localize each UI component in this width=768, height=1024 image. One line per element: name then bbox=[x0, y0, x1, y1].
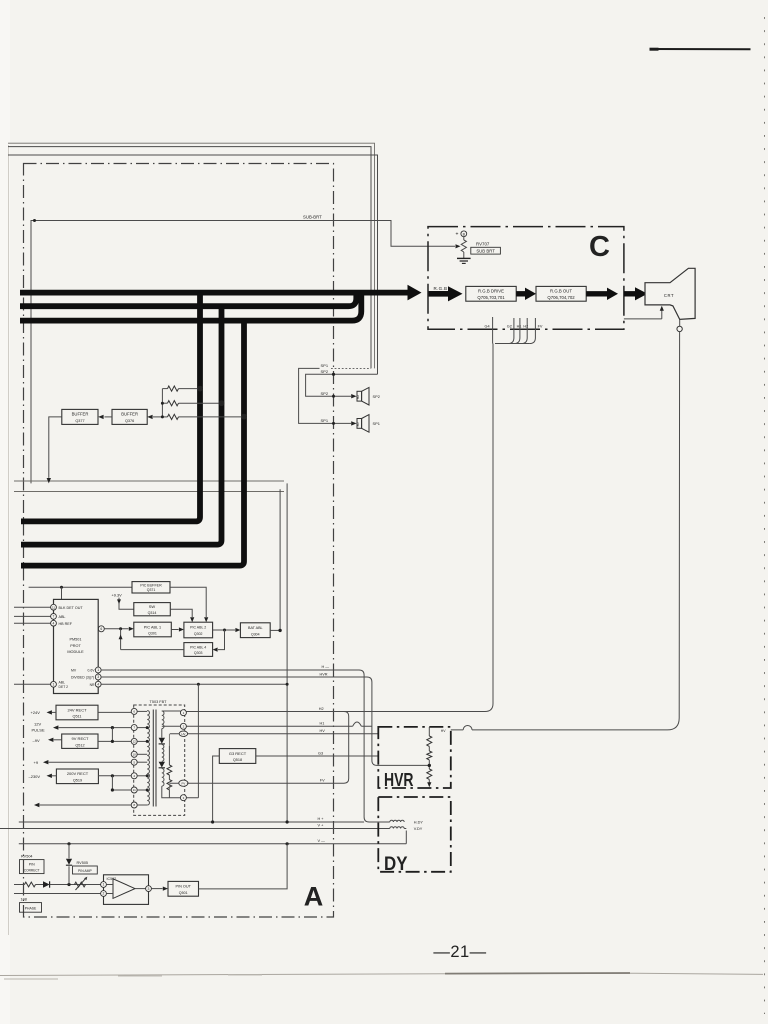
svg-text:PIN OUT: PIN OUT bbox=[175, 885, 191, 889]
module HVR box bbox=[378, 727, 451, 788]
svg-text:SUB BRT: SUB BRT bbox=[476, 249, 495, 254]
wire V.DY return bbox=[384, 822, 406, 829]
rectifier G3 RECT Q518 bbox=[219, 749, 256, 764]
svg-text:H1: H1 bbox=[320, 722, 325, 726]
svg-text:Q314: Q314 bbox=[148, 611, 157, 615]
wire resistor bus bbox=[161, 389, 163, 417]
svg-text:+9.3V: +9.3V bbox=[112, 592, 123, 597]
CRT tube bbox=[645, 268, 695, 319]
wire V+ bbox=[0, 828, 384, 830]
svg-text:H —: H — bbox=[322, 665, 330, 669]
pin 7 ABL bbox=[14, 615, 51, 617]
wire hop on H1 bbox=[353, 722, 362, 726]
svg-text:+9: +9 bbox=[34, 760, 39, 765]
svg-text:H +: H + bbox=[318, 817, 325, 821]
svg-text:1: 1 bbox=[97, 668, 99, 672]
wire pin2 left bbox=[14, 893, 101, 895]
svg-text:200V RECT: 200V RECT bbox=[67, 771, 89, 776]
svg-text:PIC ABL 1: PIC ABL 1 bbox=[144, 625, 161, 629]
module DY box bbox=[378, 797, 451, 872]
svg-text:11: 11 bbox=[133, 788, 136, 792]
svg-text:NR: NR bbox=[90, 683, 95, 687]
wire to op-amp bbox=[50, 884, 101, 886]
wire G3 RECT input drop bbox=[213, 756, 220, 822]
svg-text:–230V: –230V bbox=[29, 774, 41, 779]
svg-text:108: 108 bbox=[21, 897, 27, 901]
resistor row 3 bbox=[153, 416, 168, 418]
pin 1 ABL DET2 bbox=[14, 683, 51, 685]
svg-text:V +: V + bbox=[318, 824, 325, 828]
switch SW Q314 bbox=[134, 603, 171, 616]
transformer core bbox=[152, 710, 154, 807]
svg-text:9V RECT: 9V RECT bbox=[72, 736, 89, 741]
wire ABL2 down to ABL4 bbox=[218, 630, 225, 650]
resistor row 2 bbox=[162, 402, 167, 404]
svg-text:PHASE: PHASE bbox=[25, 906, 37, 910]
svg-text:PIN: PIN bbox=[29, 862, 35, 866]
wire ABL4 feedback bbox=[121, 629, 184, 650]
wire node6 to PIC ABL1 bbox=[104, 628, 128, 630]
wire lower box line 2 bbox=[14, 491, 284, 493]
svg-text:Q304: Q304 bbox=[251, 632, 260, 636]
wire ABL2 to BAT ABL bbox=[213, 629, 236, 631]
svg-text:H2: H2 bbox=[319, 707, 324, 711]
svg-text:PROT: PROT bbox=[70, 644, 81, 648]
pin 11 BLK DET OUT bbox=[14, 606, 51, 608]
op-amp triangle bbox=[113, 879, 135, 899]
bus arrow into C bbox=[408, 285, 422, 301]
svg-text:Q705,703,701: Q705,703,701 bbox=[477, 295, 505, 300]
wire pin8 out bbox=[40, 804, 132, 806]
wire buffer2 to buffer1 bbox=[105, 416, 113, 418]
wire top line 2 bbox=[8, 155, 378, 374]
svg-text:V.DY: V.DY bbox=[414, 827, 423, 831]
pin 4 HB REF bbox=[14, 622, 51, 624]
amplifier R.G.B DRIVE Q705,703,701 bbox=[466, 286, 516, 301]
wire top line 1 bbox=[8, 147, 371, 369]
svg-text:Q706,704,702: Q706,704,702 bbox=[547, 295, 575, 300]
bus arrow border to DRIVE bbox=[429, 291, 450, 297]
svg-text:MODULE: MODULE bbox=[67, 650, 84, 654]
svg-text:FV: FV bbox=[538, 325, 543, 329]
junction bus drop 2 bbox=[219, 400, 225, 406]
section boundary A box bbox=[24, 164, 334, 918]
svg-text:H.DY: H.DY bbox=[414, 821, 424, 825]
wire HVR feed bbox=[101, 677, 429, 765]
svg-text:PIC ABL 2: PIC ABL 2 bbox=[190, 626, 206, 630]
wire G1 to CRT bbox=[624, 310, 662, 319]
svg-text:G4: G4 bbox=[485, 325, 490, 329]
diode D504 bbox=[43, 881, 50, 887]
module PM501 bbox=[54, 599, 99, 693]
svg-text:H1: H1 bbox=[517, 325, 522, 329]
junction SP2/border top bbox=[332, 373, 335, 376]
wire secondary taps bbox=[162, 711, 181, 783]
wire ABL1 to ABL2 bbox=[171, 629, 178, 631]
wire video bus G bbox=[20, 295, 356, 307]
op-amp pin2 bbox=[101, 891, 107, 897]
transformer pin 8 bbox=[131, 802, 137, 808]
svg-text:Q303: Q303 bbox=[194, 651, 203, 655]
svg-text:R.G.B OUT: R.G.B OUT bbox=[550, 289, 572, 294]
wire H2 bbox=[186, 711, 485, 713]
svg-text:SP1: SP1 bbox=[321, 418, 329, 423]
svg-text:FV: FV bbox=[181, 781, 185, 785]
wire bus drop 3 bbox=[21, 321, 244, 566]
wire buffer1 output down bbox=[49, 417, 62, 478]
junction SP1/border bbox=[332, 422, 335, 425]
svg-text:DET 2: DET 2 bbox=[59, 685, 69, 689]
ground RV707 bbox=[457, 257, 471, 259]
svg-text:+: + bbox=[456, 232, 459, 238]
svg-text:SW: SW bbox=[149, 604, 156, 609]
resistor bleeder 2 bbox=[168, 775, 170, 780]
resistor divider HVR bbox=[428, 727, 430, 736]
svg-text:HV: HV bbox=[320, 729, 326, 733]
svg-text:12V: 12V bbox=[34, 721, 41, 726]
transformer pin 6 bbox=[131, 708, 137, 714]
svg-text:PIC BUFFER: PIC BUFFER bbox=[140, 583, 162, 587]
CRT anode terminal bbox=[679, 319, 681, 326]
wire SP1 route bbox=[299, 368, 351, 423]
wire CRT anode to HVR (HV) bbox=[472, 332, 680, 730]
rectifier 24V RECT Q511 bbox=[56, 705, 98, 720]
svg-text:G3 RECT: G3 RECT bbox=[229, 751, 247, 756]
svg-text:1: 1 bbox=[103, 883, 105, 887]
wire H+ bbox=[19, 821, 364, 823]
svg-text:MV: MV bbox=[71, 668, 77, 672]
wire video bus R (top) bbox=[20, 290, 409, 296]
faint page fold line bbox=[8, 145, 10, 935]
wire video bus B bbox=[20, 294, 361, 321]
label PHASE box bbox=[20, 903, 42, 913]
transformer pin 4 bbox=[131, 773, 137, 779]
svg-text:RV707: RV707 bbox=[476, 242, 490, 247]
amplifier R.G.B OUT Q706,704,702 bbox=[536, 286, 586, 301]
wire V- bbox=[19, 831, 407, 844]
svg-text:HVR: HVR bbox=[384, 769, 414, 790]
svg-text:SP2: SP2 bbox=[373, 394, 380, 399]
bus arrow into CRT bbox=[624, 291, 636, 296]
svg-text:Q302: Q302 bbox=[194, 632, 203, 636]
transformer pin HV bbox=[179, 731, 187, 736]
wire PIC BUFFER out to PIC ABL2 bbox=[170, 587, 206, 617]
wire top line 0 bbox=[8, 143, 375, 368]
svg-text:BUFFER: BUFFER bbox=[121, 412, 138, 417]
speaker SP1 bbox=[357, 419, 362, 429]
svg-text:—21—: —21— bbox=[433, 943, 486, 961]
section boundary C box bbox=[428, 227, 624, 330]
svg-text:10: 10 bbox=[133, 752, 137, 756]
wire H1 bbox=[186, 725, 372, 727]
svg-text:R.G.B: R.G.B bbox=[434, 286, 448, 291]
svg-text:12: 12 bbox=[133, 740, 137, 744]
label PIN AMP box bbox=[73, 866, 98, 874]
buffer Q377 bbox=[62, 409, 98, 424]
resistor row 1 bbox=[162, 388, 167, 390]
svg-text:RV505: RV505 bbox=[77, 861, 89, 865]
wire FV bbox=[187, 782, 344, 784]
svg-text:PIN AMP: PIN AMP bbox=[78, 869, 92, 873]
svg-text:7: 7 bbox=[53, 615, 55, 619]
label SUB BRT bbox=[471, 247, 501, 254]
svg-text:BLK DET OUT: BLK DET OUT bbox=[59, 606, 84, 610]
wire NR line bbox=[101, 683, 287, 685]
wire SW out to PIC ABL2 bbox=[170, 609, 192, 617]
rectifier 200V RECT Q519 bbox=[56, 769, 98, 784]
svg-text:ABL: ABL bbox=[59, 615, 66, 619]
label PIN CORRECT box bbox=[20, 860, 45, 874]
svg-text:PM501: PM501 bbox=[69, 637, 81, 641]
svg-text:A: A bbox=[304, 882, 324, 912]
wire tick merge line bbox=[495, 343, 530, 345]
svg-text:24V RECT: 24V RECT bbox=[67, 707, 87, 712]
wire 200V branch to pin11 bbox=[112, 776, 131, 790]
wire bus drop 2 bbox=[21, 306, 222, 544]
wire BAT ABL out bbox=[270, 629, 280, 631]
bus arrow out to border bbox=[586, 291, 608, 296]
svg-text:4: 4 bbox=[97, 682, 99, 686]
svg-text:FV: FV bbox=[320, 779, 325, 783]
svg-text:PULSE: PULSE bbox=[32, 728, 45, 733]
svg-text:3: 3 bbox=[148, 887, 150, 891]
svg-text:4: 4 bbox=[53, 621, 55, 625]
resistor input bbox=[14, 884, 25, 886]
transformer T503 dashed outline bbox=[134, 705, 185, 815]
svg-text:G3: G3 bbox=[318, 752, 323, 756]
svg-text:BAT ABL: BAT ABL bbox=[248, 626, 263, 630]
svg-text:SP1: SP1 bbox=[373, 421, 380, 426]
transformer pin 1 bbox=[180, 710, 186, 716]
svg-text:Q501: Q501 bbox=[179, 891, 188, 895]
svg-text:C: C bbox=[589, 231, 610, 263]
wire hop on HV line bbox=[451, 725, 472, 729]
wire H- to DY bbox=[101, 670, 384, 822]
transformer pin 12 bbox=[131, 738, 137, 744]
wire to PIN OUT bbox=[152, 888, 163, 890]
svg-text:CRT: CRT bbox=[664, 293, 674, 298]
svg-text:1: 1 bbox=[53, 683, 55, 687]
wire G3 to HVR bbox=[256, 755, 378, 757]
svg-text:Q519: Q519 bbox=[73, 778, 82, 782]
svg-text:R.G.B DRIVE: R.G.B DRIVE bbox=[478, 289, 504, 294]
wire junction drop bbox=[61, 587, 63, 599]
svg-text:+24V: +24V bbox=[31, 710, 41, 715]
potentiometer RV505 bbox=[75, 882, 86, 887]
coil H.DY bbox=[390, 820, 404, 822]
transformer pin 3 bbox=[180, 795, 186, 801]
wire bus drop 1 bbox=[21, 293, 200, 522]
svg-text:Q377: Q377 bbox=[75, 419, 84, 423]
svg-text:0.6V: 0.6V bbox=[88, 668, 96, 672]
svg-text:HVR: HVR bbox=[320, 672, 328, 676]
svg-text:BUFFER: BUFFER bbox=[72, 412, 89, 417]
svg-text:PIC ABL 4: PIC ABL 4 bbox=[190, 646, 206, 650]
transformer pin 5 bbox=[131, 759, 137, 765]
wire G4 drop to H2 line bbox=[485, 344, 493, 712]
op-amp IC502 bbox=[104, 875, 149, 905]
op-amp output bbox=[135, 888, 146, 890]
svg-text:DY: DY bbox=[384, 854, 408, 875]
wire 9V to pin12 bbox=[98, 728, 131, 742]
svg-text:3: 3 bbox=[97, 675, 99, 679]
diode D2 bbox=[159, 762, 165, 768]
transformer pin 7 bbox=[131, 725, 137, 731]
svg-text:DIVIDED (3)(7): DIVIDED (3)(7) bbox=[71, 675, 94, 679]
binding edge tick marks bbox=[764, 10, 768, 1014]
junction SP2/border bbox=[332, 395, 335, 398]
svg-text:SP2: SP2 bbox=[321, 369, 329, 374]
amplifier PIC ABL 1 Q301 bbox=[134, 622, 172, 637]
resistor bleeder 1 bbox=[168, 746, 170, 765]
diode D505 vertical bbox=[68, 866, 70, 884]
transformer pin 10 bbox=[131, 751, 137, 757]
diode D1 bbox=[159, 738, 165, 744]
bus arrow drive to out bbox=[516, 291, 526, 296]
transformer pin 11 bbox=[131, 787, 137, 793]
transformer pin FV bbox=[179, 780, 188, 786]
wire riser inner bbox=[279, 489, 281, 630]
op-amp pin1 bbox=[101, 882, 107, 888]
svg-text:HV: HV bbox=[181, 732, 185, 736]
svg-text:V —: V — bbox=[318, 839, 326, 843]
svg-text:IC502: IC502 bbox=[107, 877, 117, 881]
svg-text:Q376: Q376 bbox=[125, 419, 134, 423]
svg-text:HV: HV bbox=[441, 729, 446, 733]
wire 24V to pin6 bbox=[98, 711, 131, 713]
svg-text:6: 6 bbox=[100, 627, 102, 631]
buffer PIC BUFFER Q371 bbox=[132, 582, 170, 593]
transformer pin 2 bbox=[180, 723, 186, 729]
svg-text:G2: G2 bbox=[507, 325, 512, 329]
buffer Q376 bbox=[112, 409, 147, 424]
svg-text:SP1: SP1 bbox=[321, 363, 329, 368]
svg-text:HB REF: HB REF bbox=[59, 622, 73, 626]
potentiometer RV707 bbox=[463, 237, 465, 240]
svg-text:SP2: SP2 bbox=[321, 391, 329, 396]
wire pin3 riser bbox=[186, 684, 198, 798]
wire lower box line 1 bbox=[14, 480, 284, 482]
junction bus drop 1 bbox=[197, 386, 203, 392]
top right rule bbox=[650, 48, 751, 50]
wire riser outer bbox=[286, 483, 288, 822]
wire SUB-BRT to RV707 bbox=[31, 221, 455, 484]
bottom page-edge scan line bbox=[0, 973, 763, 975]
svg-text:SUB-BRT: SUB-BRT bbox=[303, 214, 322, 219]
wire HV bbox=[188, 733, 378, 735]
wire SP2 route bbox=[306, 374, 378, 396]
wire PIN OUT to V- bbox=[199, 844, 288, 889]
svg-text:11: 11 bbox=[52, 605, 55, 609]
svg-text:T503 FBT: T503 FBT bbox=[150, 700, 168, 704]
wire 200V to pin4 bbox=[98, 775, 131, 777]
transformer primary winding bbox=[147, 711, 149, 806]
svg-text:Q512: Q512 bbox=[75, 743, 84, 747]
svg-text:RV504: RV504 bbox=[21, 854, 33, 858]
wire +9.3V to SW bbox=[119, 598, 134, 610]
wire H2 branch down to FV bbox=[344, 712, 349, 784]
transformer secondary winding bbox=[162, 711, 164, 729]
speaker SP2 bbox=[357, 391, 362, 401]
junction bus drop 3 bbox=[241, 414, 247, 420]
svg-text:Q511: Q511 bbox=[72, 715, 81, 719]
wire SP1 dotted link bbox=[331, 367, 371, 369]
wire PIC BUFFER input bbox=[29, 586, 132, 588]
svg-text:2: 2 bbox=[103, 892, 105, 896]
amplifier PIC ABL 4 Q303 bbox=[184, 643, 213, 657]
amplifier BAT ABL Q304 bbox=[240, 623, 270, 638]
svg-text:CORRECT: CORRECT bbox=[24, 869, 40, 873]
rectifier 9V RECT Q512 bbox=[62, 734, 98, 748]
svg-text:Q518: Q518 bbox=[233, 758, 242, 762]
svg-text:Q371: Q371 bbox=[147, 588, 156, 592]
coil V.DY bbox=[390, 827, 404, 829]
amplifier PIC ABL 2 Q302 bbox=[184, 622, 213, 638]
junction bbox=[60, 586, 63, 589]
driver PIN OUT Q501 bbox=[168, 881, 199, 896]
svg-text:Q301: Q301 bbox=[148, 632, 157, 636]
svg-text:–9V: –9V bbox=[33, 738, 40, 743]
